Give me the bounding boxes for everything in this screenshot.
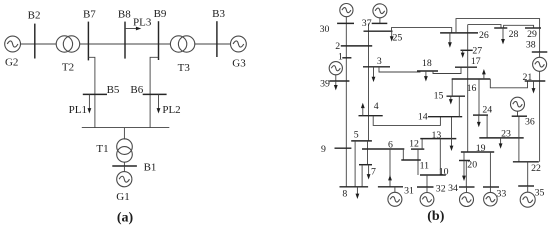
svg-text:B5: B5 [107, 84, 120, 96]
generator G3 [231, 36, 247, 52]
bus B7 [87, 22, 89, 61]
svg-text:34: 34 [448, 183, 458, 194]
generator G39 [329, 62, 342, 75]
wire column 27-17-16-19 [467, 25, 469, 152]
bus 10 [420, 174, 446, 176]
wire line 19-33 [489, 152, 491, 187]
generator G37 [373, 4, 387, 18]
wire line 28-29 [504, 25, 534, 28]
wire line 16-21 [490, 79, 527, 88]
svg-text:PL1: PL1 [69, 104, 87, 116]
wire line 20-34 [465, 161, 467, 188]
generator G35 [520, 192, 535, 207]
load arrow bus 4 up [361, 103, 365, 116]
generator G38 [533, 57, 547, 71]
svg-text:37: 37 [362, 18, 372, 29]
svg-text:11: 11 [420, 160, 430, 171]
wire T2 to T3 main [80, 43, 171, 45]
svg-text:B3: B3 [212, 8, 225, 20]
load arrow bus 25 [390, 31, 394, 41]
transformer T2 [56, 36, 79, 52]
load arrow bus 3 [372, 67, 376, 82]
bus B3 [216, 21, 218, 57]
bus 21 [525, 80, 546, 82]
svg-text:6: 6 [388, 140, 393, 151]
bus 30 [337, 22, 354, 24]
wire G31 stub [394, 187, 396, 193]
svg-text:27: 27 [472, 46, 482, 57]
svg-text:B2: B2 [28, 9, 41, 21]
svg-text:28: 28 [509, 29, 519, 40]
wire line 4-14 [373, 116, 440, 126]
bus 12 [411, 148, 424, 150]
load arrow bus 8 [356, 187, 360, 199]
svg-text:B6: B6 [130, 84, 143, 96]
svg-text:18: 18 [422, 58, 432, 69]
load arrow bus 24 [477, 115, 481, 127]
wire B7 drop to B5 [88, 57, 95, 127]
svg-text:20: 20 [467, 159, 477, 170]
wire line 5-6-7 [367, 141, 369, 165]
bus 34 [459, 186, 475, 188]
wire line 15-16 [451, 79, 453, 96]
bus 36 [512, 115, 527, 117]
wire line 12-11-10 [417, 149, 419, 175]
load arrow bus 18 [424, 71, 428, 82]
wire line 12-13 [421, 139, 423, 150]
svg-text:9: 9 [321, 144, 326, 155]
bus 6 [362, 148, 404, 150]
wire junction to T1 [123, 128, 125, 140]
wire G36 stub [517, 111, 519, 116]
wire B1 to G1 [123, 166, 125, 172]
svg-text:12: 12 [409, 139, 419, 150]
svg-text:(a): (a) [117, 211, 134, 226]
svg-text:T3: T3 [178, 62, 191, 74]
bus B6 [143, 93, 167, 95]
bus B9 [158, 21, 160, 60]
generator G1 [117, 172, 132, 187]
bus 33 [483, 186, 499, 188]
svg-text:22: 22 [531, 163, 541, 174]
wire line 17-18 [433, 67, 461, 73]
bus B2 [34, 24, 36, 59]
wire G34 stub [466, 187, 468, 193]
bus 38 [532, 51, 548, 53]
svg-text:T1: T1 [96, 143, 108, 155]
wire column 30-2-1-39-9-8 [345, 17, 347, 187]
svg-text:25: 25 [393, 32, 403, 43]
svg-text:26: 26 [479, 30, 489, 41]
bus 8 [340, 186, 369, 188]
wire line 5-8 [354, 141, 356, 187]
wire G32 stub [426, 187, 428, 193]
bus 29 [525, 27, 541, 29]
wire G2 to B2 [21, 43, 57, 45]
load arrow bus 27 [461, 50, 465, 58]
bus 32 [417, 186, 434, 188]
wire line 14-15 [458, 96, 460, 117]
wire junction line [82, 127, 170, 129]
svg-text:33: 33 [497, 188, 507, 199]
bus B8 [124, 22, 126, 59]
svg-text:10: 10 [439, 166, 449, 177]
bus 27 [461, 49, 473, 51]
svg-text:G2: G2 [5, 57, 18, 69]
bus 4 [359, 115, 383, 117]
load arrow bus 26 [448, 33, 452, 48]
bus 25 [364, 30, 393, 32]
svg-text:T2: T2 [62, 61, 74, 73]
wire line 6-31 [389, 149, 391, 187]
bus 24 [473, 114, 488, 116]
svg-text:16: 16 [467, 83, 477, 94]
wire line 6-11 [402, 149, 404, 160]
bus 20 [459, 160, 470, 162]
bus 39 [329, 80, 349, 82]
wire G39 stub [335, 75, 337, 81]
svg-text:2: 2 [335, 41, 340, 52]
wire G35 stub [527, 186, 529, 192]
wire B9 drop to B6 [150, 57, 158, 127]
svg-text:39: 39 [320, 78, 330, 89]
svg-text:15: 15 [434, 91, 444, 102]
bus 17 [455, 66, 477, 68]
svg-text:B1: B1 [144, 162, 157, 174]
wire line 10-32 [426, 175, 428, 187]
bus 9 [335, 147, 352, 149]
flow arrow on 6-31 up [388, 175, 392, 180]
wire line 22-35 [527, 162, 529, 186]
load arrow bus 23 [499, 138, 503, 149]
wire line 21-22 right column [539, 71, 541, 162]
svg-text:14: 14 [418, 112, 428, 123]
bus 22 [513, 161, 539, 163]
load arrow bus 20 [462, 161, 466, 182]
svg-text:4: 4 [374, 101, 379, 112]
wire line 26-29 [456, 19, 540, 33]
load arrow bus 15 [449, 96, 453, 104]
generator G36 [511, 97, 525, 111]
bus 5 [351, 140, 372, 142]
bus 19 [461, 151, 494, 153]
wire T3 to G3 [195, 43, 231, 45]
bus 7 [359, 164, 372, 166]
wire line 13-14 [451, 117, 453, 139]
bus 16 [452, 78, 491, 80]
generator G31 [388, 192, 402, 206]
svg-text:B7: B7 [83, 9, 96, 21]
svg-text:35: 35 [535, 188, 545, 199]
wire line 19-20 [463, 152, 465, 161]
wire line 3-18 [379, 67, 420, 72]
wire line 23-24 [486, 115, 488, 138]
generator G32 [420, 193, 434, 207]
svg-text:5: 5 [354, 129, 359, 140]
svg-text:21: 21 [523, 72, 533, 83]
load PL3 arrow [125, 27, 141, 31]
svg-text:G3: G3 [232, 57, 246, 69]
svg-text:1: 1 [338, 51, 343, 62]
svg-text:7: 7 [371, 166, 376, 177]
load arrow bus 13 [450, 139, 454, 151]
generator G2 [5, 36, 21, 52]
wire G38 stub [539, 52, 541, 57]
bus 1 [342, 57, 351, 59]
wire line 7-8 [361, 165, 363, 187]
bus 3 [363, 66, 390, 68]
svg-text:G1: G1 [116, 191, 129, 203]
bus B1 [112, 165, 137, 167]
bus 18 [417, 70, 438, 72]
bus 2 [341, 45, 372, 47]
wire line 16-24 [478, 79, 480, 115]
wire column 37-25-2-3-4-5 [368, 23, 370, 140]
load PL1 arrow [88, 94, 92, 113]
wire line 36-23-22 [518, 116, 520, 162]
generator G30 [340, 4, 353, 17]
bus 35 [518, 185, 534, 187]
svg-text:23: 23 [501, 128, 511, 139]
bus 23 [479, 137, 523, 139]
bus 26 [440, 32, 478, 34]
svg-text:36: 36 [525, 117, 535, 128]
svg-text:(b): (b) [427, 209, 444, 224]
svg-text:B8: B8 [118, 9, 131, 21]
svg-text:13: 13 [432, 130, 442, 141]
svg-text:30: 30 [320, 24, 330, 35]
bus 15 [447, 95, 466, 97]
svg-text:24: 24 [482, 105, 492, 116]
transformer T1 [117, 139, 133, 162]
bus 31 [378, 186, 403, 188]
load arrow bus 28 [501, 28, 505, 44]
wire G37 stub [379, 18, 381, 24]
bus 11 [401, 159, 421, 161]
flow arrow bus 16 up [482, 69, 486, 79]
bus 14 [428, 116, 462, 118]
bus 28 [494, 27, 507, 29]
bus 37 [372, 22, 388, 24]
svg-text:38: 38 [526, 39, 536, 50]
svg-text:3: 3 [377, 56, 382, 67]
load arrow bus 21 [532, 81, 536, 94]
wire G33 stub [489, 187, 491, 192]
transformer T3 [170, 36, 194, 52]
svg-text:PL2: PL2 [162, 104, 180, 116]
generator G33 [484, 192, 498, 206]
svg-text:29: 29 [527, 29, 537, 40]
wire line 29-38 [539, 28, 541, 52]
svg-text:32: 32 [436, 184, 446, 195]
svg-text:17: 17 [471, 56, 481, 67]
wire T1 to B1 [123, 162, 125, 166]
bus 13 [420, 138, 456, 140]
svg-text:31: 31 [404, 186, 414, 197]
svg-text:PL3: PL3 [133, 16, 152, 28]
load PL2 arrow [157, 94, 161, 113]
wire line 26-28 [468, 25, 501, 28]
load arrow bus 7 [367, 165, 371, 180]
wire line 10-13 [439, 139, 441, 175]
bus B5 [83, 93, 107, 95]
svg-text:19: 19 [476, 143, 486, 154]
svg-text:B9: B9 [154, 8, 167, 20]
generator G34 [460, 193, 474, 207]
wire line 25-26 [392, 28, 452, 33]
load arrow bus 39 [334, 81, 338, 90]
svg-text:8: 8 [342, 188, 347, 199]
